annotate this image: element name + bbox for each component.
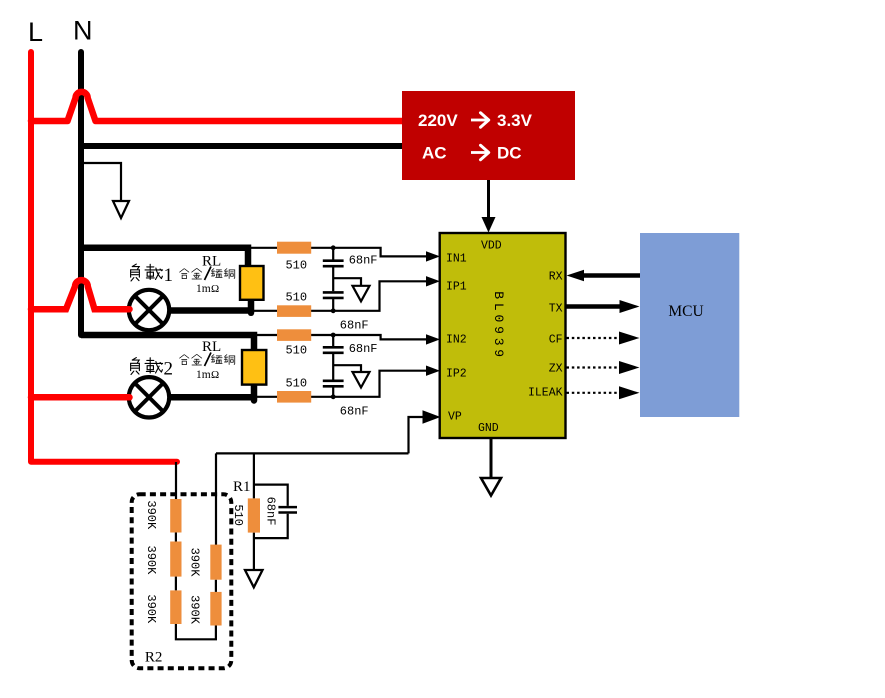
- svg-text:AC: AC: [422, 144, 447, 163]
- resistor 510 (IP2): [277, 391, 311, 403]
- arrowhead ZX: [619, 361, 640, 374]
- svg-text:1: 1: [164, 265, 174, 286]
- svg-text:510: 510: [285, 344, 307, 358]
- resistor R2b2 390K: [210, 592, 221, 626]
- svg-text:9: 9: [491, 349, 506, 357]
- resistor R2a2 390K: [170, 542, 181, 577]
- svg-text:390K: 390K: [144, 500, 158, 530]
- arrowhead TX: [620, 300, 640, 313]
- svg-text:510: 510: [285, 291, 307, 305]
- wire N bus to RL2: [81, 335, 254, 352]
- wire RL2 bottom stub: [251, 383, 258, 401]
- svg-text:IP1: IP1: [446, 281, 467, 294]
- capacitor C5 plates: [278, 507, 297, 512]
- svg-text:CF: CF: [549, 334, 563, 347]
- wire ground branch ch2: [333, 365, 361, 379]
- svg-text:68nF: 68nF: [340, 405, 369, 419]
- svg-text:68nF: 68nF: [340, 319, 369, 333]
- shunt RL2: [242, 350, 266, 385]
- svg-text:MCU: MCU: [668, 303, 703, 320]
- resistor 510 (IP1): [277, 305, 311, 317]
- wire R1-C5 loop bottom: [254, 514, 288, 538]
- arrowhead RX: [567, 270, 585, 281]
- svg-text:R1: R1: [233, 479, 251, 495]
- arrowhead ILEAK: [619, 386, 640, 399]
- resistor R2a3 390K: [170, 590, 181, 624]
- label 合金/锰铜: [180, 355, 189, 365]
- MCU box: [640, 233, 739, 417]
- junction dots ch2: [331, 333, 336, 338]
- svg-text:390K: 390K: [187, 548, 201, 578]
- wire N stub to earth: [81, 163, 121, 209]
- wire red end to R2a1: [175, 462, 177, 499]
- label 负载1: [131, 264, 140, 281]
- label 负载2: [131, 358, 140, 375]
- svg-text:GND: GND: [478, 422, 499, 435]
- arrowhead IP2: [426, 366, 440, 376]
- ground ch2: [353, 372, 370, 388]
- wire R2b1-R2b2: [215, 580, 217, 592]
- svg-text:510: 510: [285, 377, 307, 391]
- svg-text:68nF: 68nF: [263, 497, 277, 526]
- wire VDD from AC-DC to chip: [487, 180, 490, 218]
- svg-text:IN1: IN1: [446, 253, 467, 266]
- arrowhead VP: [423, 410, 441, 424]
- wire lamp1 to RL1: [169, 307, 252, 314]
- wire VP riser: [409, 417, 430, 453]
- svg-text:220V: 220V: [418, 111, 458, 130]
- wire R2a1-R2a2: [175, 533, 177, 542]
- svg-text:RL: RL: [202, 339, 221, 355]
- svg-text:Ω: Ω: [211, 369, 219, 381]
- arrowhead IP1: [426, 276, 440, 286]
- wire L to AC-DC (with hop over N): [31, 92, 403, 121]
- svg-text:390K: 390K: [144, 594, 158, 624]
- wire R2a2-R2a3: [175, 577, 177, 591]
- AC-DC module box: [402, 91, 575, 180]
- wire IP1 net: [251, 281, 429, 311]
- svg-text:Ω: Ω: [211, 283, 219, 295]
- capacitor C1 plates: [323, 261, 344, 267]
- R2 dashed box: [132, 494, 232, 668]
- svg-text:N: N: [73, 16, 93, 46]
- wire ground branch ch1: [333, 278, 361, 293]
- arrowhead CF: [619, 332, 640, 345]
- svg-text:L: L: [28, 17, 43, 47]
- svg-text:VP: VP: [448, 411, 462, 424]
- svg-text:390K: 390K: [187, 595, 201, 625]
- wire ZX dotted: [567, 366, 623, 368]
- svg-text:R2: R2: [145, 650, 163, 666]
- lamp1 load: [129, 290, 169, 330]
- junction dots ch1: [331, 245, 336, 250]
- arrow glyph line2: [471, 151, 487, 154]
- svg-text:510: 510: [285, 259, 307, 273]
- wire RX: [582, 273, 640, 278]
- op-amp U1 chip body: [440, 233, 566, 438]
- svg-text:68nF: 68nF: [349, 254, 378, 268]
- wire IN1 net: [248, 248, 429, 257]
- resistor 510 (IN1): [277, 242, 311, 254]
- wire CF dotted: [567, 337, 623, 339]
- svg-text:390K: 390K: [144, 545, 158, 575]
- wire IP2 net: [254, 371, 429, 397]
- wire L to lamp2: [31, 394, 130, 401]
- label 合金/锰铜: [180, 269, 189, 279]
- capacitor C3 plates: [323, 347, 344, 353]
- svg-text:68nF: 68nF: [349, 342, 378, 356]
- ground ch1: [353, 286, 370, 302]
- svg-text:IP2: IP2: [446, 368, 467, 381]
- capacitor C2 wires: [332, 299, 334, 311]
- svg-text:3.3V: 3.3V: [497, 111, 533, 130]
- wire GND to earth: [490, 439, 493, 487]
- svg-text:1m: 1m: [196, 283, 211, 295]
- wire N to AC-DC: [81, 143, 403, 149]
- svg-text:RX: RX: [549, 271, 563, 284]
- svg-text:ZX: ZX: [549, 363, 563, 376]
- svg-text:IN2: IN2: [446, 334, 467, 347]
- arrowhead IN2: [426, 334, 440, 344]
- svg-text:ILEAK: ILEAK: [528, 387, 563, 400]
- svg-text:9: 9: [491, 326, 506, 334]
- label BL0939 vertical: [491, 291, 506, 357]
- capacitor C1 wires: [332, 248, 334, 260]
- ground below R1: [245, 570, 263, 587]
- lamp2 load: [129, 377, 169, 417]
- svg-text:2: 2: [164, 359, 174, 380]
- svg-text:3: 3: [491, 338, 506, 346]
- wire R1-C5 loop top: [254, 485, 288, 506]
- label 220V to 3.3V: [418, 111, 458, 130]
- svg-text:1m: 1m: [196, 369, 211, 381]
- capacitor C4 wires: [332, 387, 334, 396]
- wire R2 right column riser: [215, 453, 217, 545]
- resistor R2a1 390K: [170, 499, 181, 533]
- ground below chip: [481, 478, 501, 496]
- resistor R1 510: [248, 498, 260, 532]
- wire lamp2 to RL2: [169, 394, 257, 401]
- shunt RL1: [240, 266, 264, 300]
- svg-text:0: 0: [491, 314, 506, 322]
- svg-text:TX: TX: [549, 303, 563, 316]
- wire R2 bottom link: [176, 624, 216, 639]
- wire N bus to RL1: [81, 248, 248, 267]
- svg-text:DC: DC: [497, 144, 522, 163]
- wire L to lamp1 (with hop over N): [31, 280, 130, 309]
- capacitor C4 plates: [323, 381, 344, 387]
- arrowhead IN1: [426, 251, 440, 261]
- wire R1 to ground: [253, 533, 255, 579]
- svg-text:B: B: [491, 291, 506, 299]
- wire IN2 net: [254, 335, 429, 339]
- capacitor C2 plates: [323, 292, 344, 298]
- wire VP main horizontal: [216, 452, 409, 454]
- wire L (live vertical + bottom branch to R2): [31, 52, 177, 462]
- wire ILEAK dotted: [567, 392, 623, 394]
- svg-text:L: L: [491, 303, 506, 311]
- wire TX: [566, 304, 624, 309]
- wire R1 riser: [253, 453, 255, 498]
- svg-text:VDD: VDD: [481, 240, 502, 253]
- resistor 510 (IN2): [277, 329, 311, 341]
- arrow glyph line1: [471, 119, 487, 122]
- resistor R2b1 390K: [210, 545, 221, 580]
- arrowhead VDD: [482, 217, 496, 233]
- capacitor C3 wires: [332, 335, 334, 346]
- wire N (neutral vertical): [78, 52, 84, 335]
- wire RL1 bottom stub: [248, 298, 255, 313]
- earth arrow top-left: [113, 201, 129, 218]
